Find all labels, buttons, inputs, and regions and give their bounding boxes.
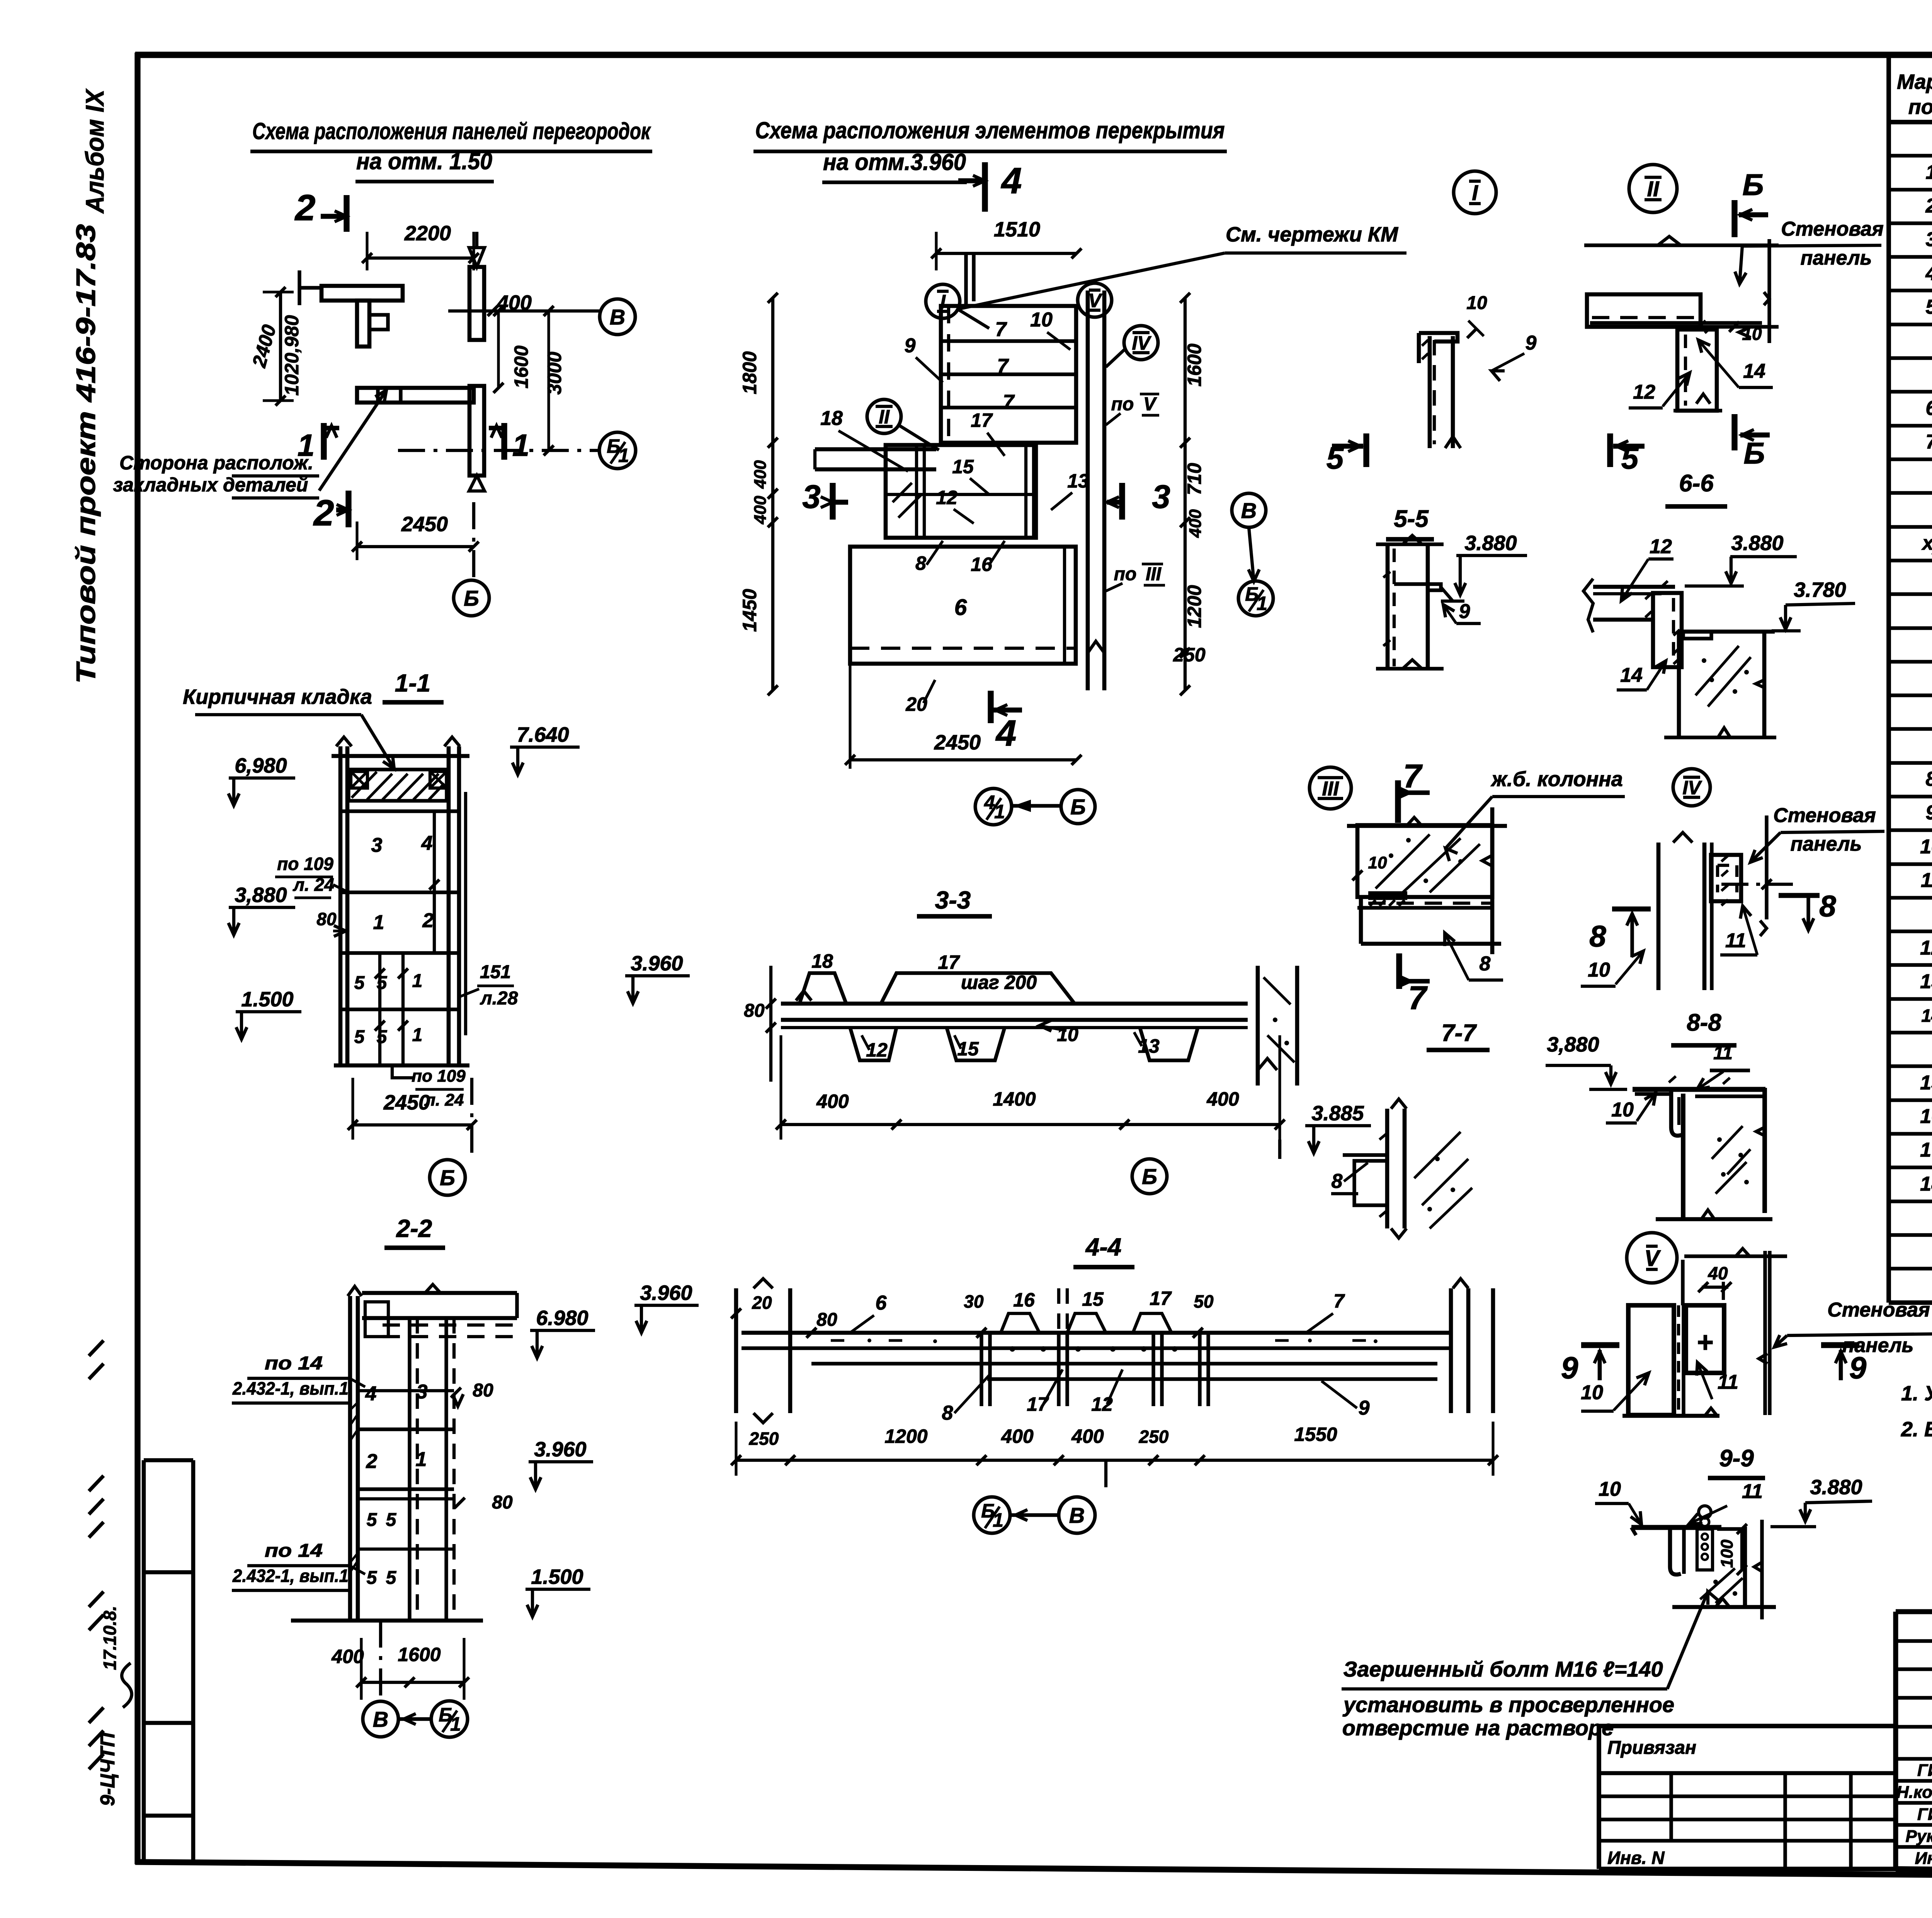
svg-text:2: 2 [294,187,316,228]
8-8 hatch [1712,1126,1750,1194]
svg-text:12: 12 [1920,937,1932,959]
2-2 corner piece [365,1302,388,1337]
4-4 right column l1 [1449,1288,1453,1413]
1-1 circle B [430,1160,465,1195]
detail circle II header [1629,165,1677,212]
margin signature squiggle [122,1663,132,1707]
detail III beam top line [1357,906,1491,909]
1-1 bottom line [334,1063,469,1068]
detail IV column left [1656,843,1661,990]
svg-text:5: 5 [386,1568,397,1588]
svg-text:по 14: по 14 [265,1353,323,1374]
panel stack line3 [941,406,1076,409]
svg-text:80: 80 [473,1380,493,1401]
4-4 chair1 [1001,1313,1039,1333]
axis circle V [600,299,635,335]
detail II bracket [1677,330,1717,411]
3-3 slab lower thin [781,1026,1248,1029]
2-2 inner line2 [444,1318,448,1621]
svg-text:1800: 1800 [739,351,760,394]
sheet frame left border [134,53,140,1864]
2-2 slab top [362,1291,517,1295]
3-3 chair 18 [799,973,846,1004]
svg-text:2450: 2450 [401,513,448,536]
7-7 angle bracket [1343,1155,1387,1205]
svg-text:5: 5 [386,1510,397,1530]
svg-text:2-2: 2-2 [396,1215,432,1242]
detail V joint l2 [1682,1305,1685,1415]
svg-text:5: 5 [354,1027,365,1047]
3-3 column right line [1295,966,1299,1086]
4-4 right column l2 [1466,1288,1471,1413]
privyazan block left edge [1597,1726,1601,1869]
svg-text:3-3: 3-3 [935,886,971,914]
axis circle B1 right [1238,581,1273,616]
svg-text:4: 4 [1001,160,1022,201]
svg-text:1020,980: 1020,980 [281,315,303,396]
pipe step line [964,255,968,305]
svg-text:4: 4 [1925,262,1932,285]
svg-text:3: 3 [371,834,383,856]
sheet frame top border [135,52,1932,58]
svg-text:80: 80 [744,1001,765,1021]
svg-text:х): х) [1921,532,1932,554]
svg-text:400: 400 [816,1091,849,1112]
detail IV weld x [1721,856,1728,905]
svg-text:17: 17 [971,409,993,431]
4-4 slab mid [742,1346,1452,1350]
svg-text:установить в просверленное: установить в просверленное [1342,1692,1674,1717]
svg-text:Б: Б [1742,168,1764,202]
8-8 angle flange lower [1635,1092,1673,1096]
stamp box line 2 [144,1570,193,1575]
svg-text:15: 15 [952,456,974,477]
2-2 dashed2 [383,1335,514,1338]
7-7 weld x [1379,1134,1386,1217]
svg-text:Марка,: Марка, [1897,70,1932,93]
detail III break right [1482,855,1492,866]
svg-text:12: 12 [936,487,957,508]
svg-text:7: 7 [1926,431,1932,453]
right dim chain line [1184,298,1187,690]
8-8 break bottom [1701,1210,1714,1219]
svg-text:9-9: 9-9 [1719,1445,1754,1472]
svg-text:В: В [373,1707,388,1731]
axis line to B1 [398,449,600,452]
svg-text:II: II [1647,177,1660,201]
svg-text:20: 20 [905,693,927,715]
stamp boxes left line [142,1460,146,1864]
svg-text:8: 8 [1819,889,1836,923]
3-3 chair 17 [881,973,1075,1004]
detail I break [1445,437,1461,448]
svg-text:шаг 200: шаг 200 [961,972,1037,993]
4-4 joint [980,1333,983,1406]
4-4 chair3 [1133,1313,1172,1333]
5-5 wall right [1426,544,1430,669]
svg-text:Рук.гр.: Рук.гр. [1906,1827,1932,1846]
svg-text:17: 17 [938,951,960,973]
svg-text:4: 4 [421,832,433,855]
svg-text:Типовой проект 416-9-17.83: Типовой проект 416-9-17.83 [71,224,101,684]
svg-text:I: I [1472,180,1478,205]
9-9 hatch [1700,1568,1743,1603]
3-3 hatch col [1264,977,1294,1062]
svg-text:3: 3 [417,1381,428,1403]
detail circle IV [1124,326,1158,360]
8-8 weld x [1669,1076,1730,1084]
svg-text:Н.контр.: Н.контр. [1896,1783,1932,1802]
detail V break top [1736,1249,1750,1256]
6-6 break right [1756,680,1764,688]
6-6 beam top inner [1593,592,1662,595]
svg-text:17: 17 [1150,1288,1172,1309]
svg-text:Схема расположения элементов п: Схема расположения элементов перекрытия [755,117,1225,143]
detail V joint l1 [1672,1305,1675,1415]
svg-text:100: 100 [1718,1539,1736,1568]
6-6 wall panel right [1762,631,1767,737]
svg-text:400: 400 [751,460,770,489]
svg-text:10: 10 [1030,309,1053,331]
svg-text:1: 1 [412,1025,423,1045]
9-9 flange tip [1631,1527,1636,1535]
2-2 axis dashdot [379,1621,382,1701]
privyazan grid v1 [1669,1773,1673,1841]
svg-text:Инв. N: Инв. N [1607,1848,1665,1868]
panel right vertical [469,267,484,340]
svg-text:V: V [1645,1246,1661,1271]
detail III plate top [1368,891,1407,896]
2-2 hline1 [358,1389,454,1392]
svg-text:9: 9 [1926,802,1932,824]
svg-text:1400: 1400 [993,1088,1036,1110]
8-8 column left [1681,1094,1685,1220]
dim line bottom B [850,758,1077,761]
svg-text:400: 400 [1206,1088,1239,1110]
title block top line [1896,1609,1932,1614]
svg-text:В: В [610,305,625,329]
svg-text:ГИП: ГИП [1917,1805,1932,1824]
svg-text:18: 18 [1920,1173,1932,1195]
svg-text:3: 3 [1926,228,1932,251]
svg-text:В: В [1241,498,1257,523]
svg-text:16: 16 [1013,1289,1035,1311]
svg-text:11: 11 [1742,1480,1763,1503]
4-4 slab bottom band [811,1362,1437,1365]
svg-text:2.432-1, вып.1: 2.432-1, вып.1 [232,1378,349,1398]
svg-text:IV: IV [1132,332,1151,354]
panel lower horizontal [357,388,474,403]
9-9 bolt [1699,1506,1711,1518]
6-6 wall panel top [1679,630,1775,634]
detail circle V big [1627,1233,1677,1283]
9-9 bolt plate dashed [1697,1529,1713,1570]
title block left edge [1893,1612,1898,1869]
svg-text:2: 2 [313,493,334,533]
svg-text:16: 16 [1920,1105,1932,1128]
panel vertical leg [357,301,369,347]
6-6 ground line [1664,736,1776,739]
detail V connector line [1681,1260,1684,1305]
detail II right vertical [1767,239,1771,343]
detail III break top [1406,817,1422,826]
hatch mark middle block [893,483,922,518]
2-2 inner line1 [408,1318,411,1621]
svg-text:Схема расположения панелей пер: Схема расположения панелей перегородок [252,118,651,144]
svg-text:15: 15 [1082,1288,1104,1310]
circle 4/1 bottom [975,788,1012,825]
svg-text:400: 400 [1071,1425,1104,1447]
6-6 beam break left [1583,579,1593,632]
svg-text:7: 7 [1403,758,1423,795]
3-3 rib mid [947,1028,1005,1060]
detail V column channel [1628,1305,1674,1415]
detail circle III [1310,767,1351,809]
svg-text:1: 1 [373,911,384,934]
detail III top line [1347,824,1507,828]
detail IV panel right line [1765,815,1768,919]
svg-text:1200: 1200 [884,1425,927,1447]
1-1 divider 5a [378,953,381,1065]
sheet frame bottom border [135,1862,1932,1881]
svg-text:3.960: 3.960 [640,1281,692,1305]
svg-text:30: 30 [964,1291,984,1312]
svg-text:1550: 1550 [1294,1424,1337,1445]
svg-text:Б: Б [464,586,479,610]
svg-text:8: 8 [1926,768,1932,790]
detail circle I [926,284,960,318]
4-4 slab top [742,1331,1452,1335]
svg-text:151: 151 [480,962,511,982]
9-9 column right [1743,1527,1747,1607]
2-2 slab bottom [362,1316,517,1320]
svg-text:+: + [1696,1326,1713,1358]
2-2 dashed1 [383,1323,514,1327]
svg-text:1200: 1200 [1184,585,1205,628]
svg-text:9: 9 [905,335,916,357]
svg-text:1: 1 [416,1448,427,1471]
svg-text:поз.: поз. [1908,95,1932,119]
svg-text:5: 5 [367,1568,378,1588]
svg-text:11: 11 [1713,1043,1733,1063]
2-2 hline3 [358,1487,454,1491]
svg-text:на отм. 1.50: на отм. 1.50 [356,148,492,174]
detail III weld xxx [1370,900,1405,906]
svg-text:80: 80 [492,1492,513,1513]
3-3 slab top line [781,1002,1248,1006]
4-4 slab fill marks [831,1339,1366,1342]
svg-text:Б: Б [440,1165,455,1190]
detail I weld x [1422,340,1428,359]
1-1 top cap [332,754,469,758]
detail I channel right [1451,336,1455,448]
arrow on panel top [469,248,485,267]
svg-text:3.880: 3.880 [1810,1476,1862,1499]
arrow panel bottom [469,476,485,491]
svg-text:Инж.: Инж. [1915,1849,1932,1868]
6-6 beam top [1593,585,1675,589]
detail V wall top line [1684,1254,1787,1258]
svg-text:8: 8 [915,552,926,574]
1-1 divider 5b [401,953,405,1065]
svg-text:8: 8 [942,1402,953,1424]
detail V wall panel line1 [1763,1251,1767,1415]
detail III beam bottom [1361,942,1501,946]
svg-text:5: 5 [367,1510,378,1530]
svg-text:Стеновая: Стеновая [1781,218,1883,240]
3-3 column left line [1256,966,1260,1086]
detail II slab [1587,294,1701,327]
privyazan band bottom [1599,1771,1896,1775]
4-4 circle B1 [974,1497,1010,1533]
svg-text:6: 6 [876,1292,887,1314]
svg-text:10: 10 [1581,1381,1603,1404]
svg-text:7: 7 [1408,980,1428,1016]
svg-text:17: 17 [1027,1393,1049,1415]
svg-text:11: 11 [1718,1371,1738,1393]
detail III hatch [1376,834,1480,896]
svg-text:17: 17 [1920,1139,1932,1161]
svg-text:5: 5 [377,973,388,993]
svg-text:11: 11 [1921,869,1932,892]
svg-text:2450: 2450 [934,731,981,754]
2-2 ground line [291,1619,483,1623]
axis circle B1 [599,432,636,469]
6-6 wall panel left [1677,631,1681,737]
1-1 wall left inner [345,746,350,1065]
svg-text:40: 40 [1708,1263,1728,1283]
svg-text:9: 9 [1561,1351,1578,1385]
stamp box line 1 [144,1458,193,1463]
svg-text:18: 18 [820,407,843,430]
svg-text:Б: Б [1142,1164,1157,1189]
svg-text:1: 1 [412,971,423,991]
stamp box line 3 [144,1721,193,1725]
title block bottom line [1896,1869,1932,1877]
1-1 cross box left [351,771,367,788]
svg-text:9-ЦЧТП: 9-ЦЧТП [97,1732,119,1806]
9-9 wall break [1754,1562,1762,1571]
privyazan block bottom [1599,1867,1896,1871]
detail I channel left [1428,336,1432,448]
4-4 chair2 [1067,1313,1106,1333]
detail III plate bottom [1368,896,1407,900]
privyazan grid v2 [1783,1773,1787,1869]
slab 6 outline [850,547,1076,664]
7-7 hatch [1414,1132,1472,1228]
svg-text:См. чертежи КМ: См. чертежи КМ [1226,223,1398,246]
5-5 bottom line [1376,667,1444,670]
svg-text:2: 2 [422,909,434,932]
1-1 hatch lines [352,772,444,800]
6-6 weld x marks [1645,581,1680,664]
svg-text:10: 10 [1611,1099,1634,1121]
panel stack line1 [941,339,1076,343]
6-6 panel notch [1683,632,1711,639]
svg-text:3.885: 3.885 [1311,1102,1364,1125]
svg-text:7: 7 [997,355,1009,377]
svg-text:3: 3 [1152,479,1170,515]
8-8 ground line [1656,1217,1772,1221]
svg-text:II: II [879,406,890,428]
detail V wall break [1759,1354,1767,1364]
svg-text:6: 6 [1926,397,1932,420]
svg-text:10: 10 [1588,959,1610,981]
svg-text:7: 7 [1003,391,1015,413]
privyazan grid v3 [1849,1773,1852,1869]
detail V bracket plate [1686,1305,1724,1373]
svg-text:5: 5 [377,1027,388,1047]
svg-text:6-6: 6-6 [1679,470,1714,497]
detail circle IV big [1673,769,1710,806]
svg-text:1510: 1510 [994,218,1040,241]
svg-text:III: III [1322,778,1339,800]
svg-text:на отм.3.960: на отм.3.960 [823,149,966,175]
3-3 rib left [850,1028,896,1060]
svg-text:250: 250 [1139,1427,1169,1447]
6-6 break bottom [1718,728,1730,737]
svg-text:1-1: 1-1 [395,669,431,697]
1-1 wall left outer [338,746,343,1065]
4-4 circle V [1059,1497,1095,1533]
9-9 ground break [1716,1599,1730,1607]
panel horizontal top [321,286,403,301]
svg-text:по 109: по 109 [277,854,333,874]
5-5 angle flange [1394,584,1441,590]
3-3 left dim line [769,966,772,1082]
svg-text:Сторона располож.: Сторона располож. [119,452,313,474]
svg-text:л.28: л.28 [480,988,518,1009]
4-4 right column l3 [1491,1288,1495,1413]
svg-text:13: 13 [1920,970,1932,993]
svg-text:250: 250 [749,1429,779,1449]
4-4 left column l1 [734,1288,738,1413]
svg-text:3: 3 [802,479,820,515]
svg-text:2. Все швы принять h=6мм.: 2. Все швы принять h=6мм. [1901,1418,1932,1441]
svg-text:10: 10 [1368,853,1387,872]
svg-text:10: 10 [1466,293,1487,313]
svg-text:14: 14 [1921,1006,1932,1026]
detail I angle top [1419,333,1458,341]
detail circle II [867,399,901,433]
svg-text:7.640: 7.640 [517,723,569,746]
svg-text:8-8: 8-8 [1687,1009,1721,1036]
detail III right edge [1490,807,1495,954]
detail III dashed line [1368,902,1491,905]
svg-text:10: 10 [1057,1024,1078,1045]
8-8 column right [1762,1088,1767,1213]
svg-text:Б: Б [1743,436,1765,470]
svg-text:10: 10 [1920,836,1932,858]
svg-text:6: 6 [954,595,967,620]
svg-text:7-7: 7-7 [1441,1020,1477,1046]
line to circle V [448,309,601,313]
detail circle I header [1454,171,1496,214]
svg-text:V: V [1143,394,1157,415]
detail IV axis line [1721,883,1793,886]
9-9 wall line [1760,1520,1764,1619]
svg-text:2200: 2200 [404,222,451,245]
svg-text:7: 7 [1333,1290,1345,1312]
2-2 wall left inner [356,1296,360,1621]
panel stack line2 [941,372,1076,376]
5-5 wall left [1386,544,1390,669]
3-3 bottom dim line [781,1123,1280,1126]
svg-text:12: 12 [1633,381,1655,403]
svg-text:20: 20 [752,1293,772,1313]
detail III beam left [1359,898,1363,944]
svg-text:3.960: 3.960 [631,952,683,975]
